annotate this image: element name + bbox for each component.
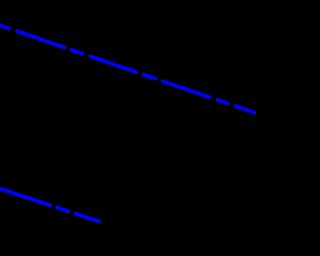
wire glow mid layer	[0, 24, 257, 221]
wire core layer	[0, 24, 257, 221]
wire glow outer layer	[0, 24, 257, 221]
